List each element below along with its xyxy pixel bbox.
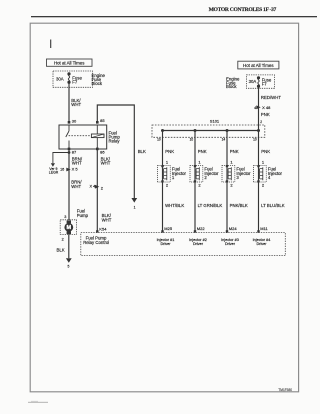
label box: Hot at All Times (right)	[238, 61, 279, 69]
junction below 87	[68, 151, 71, 154]
svg-text:10: 10	[157, 137, 161, 141]
svg-text:WHT: WHT	[101, 161, 111, 166]
svg-text:Driver: Driver	[193, 242, 204, 246]
svg-text:5: 5	[67, 264, 69, 268]
wire: relay 86 to ECM K54, BLK/WHT	[96, 149, 98, 232]
svg-text:87: 87	[72, 149, 77, 154]
svg-text:16: 16	[60, 168, 64, 172]
svg-text:S101: S101	[210, 118, 220, 123]
splice junction node (drop 2)	[194, 129, 197, 132]
wire: fuse F7 to relay 30, BLK/WHT	[68, 82, 70, 122]
svg-text:Relay: Relay	[109, 139, 121, 144]
splice junction node (drop 1)	[161, 129, 164, 132]
svg-text:Hot at All Times: Hot at All Times	[243, 63, 274, 68]
svg-text:30A: 30A	[249, 79, 257, 84]
splice junction node (drop 3)	[226, 129, 229, 132]
bottom-left printing artifact	[28, 402, 48, 403]
fuel injector 2 coil symbol	[194, 165, 196, 183]
svg-text:PNK/BLK: PNK/BLK	[230, 203, 248, 208]
svg-text:X 5: X 5	[72, 167, 79, 172]
svg-text:3: 3	[64, 215, 66, 219]
svg-text:WHT: WHT	[71, 184, 81, 189]
wire: fuel pump to ground, BLK	[68, 234, 70, 258]
wire: relay 85 up and over to ground, BLK	[97, 105, 134, 198]
relay terminal 87	[68, 148, 71, 151]
header rule	[31, 16, 317, 17]
svg-text:M25: M25	[164, 226, 173, 231]
svg-text:1: 1	[134, 206, 136, 210]
svg-text:MOTOR CONTROLES 1F -37: MOTOR CONTROLES 1F -37	[209, 7, 277, 13]
relay terminal 85	[96, 121, 99, 124]
svg-text:TM1F380: TM1F380	[278, 388, 292, 392]
svg-text:M22: M22	[197, 226, 206, 231]
splice bus wire	[163, 130, 259, 132]
svg-text:30: 30	[72, 119, 77, 124]
ground (relay coil)	[131, 198, 137, 203]
fuse F7 dashed box (engine fuse block, left)	[53, 71, 93, 87]
svg-text:WHT: WHT	[71, 102, 81, 107]
svg-text:LT GRN/BLK: LT GRN/BLK	[198, 203, 223, 208]
fuel injector 3 dashed box	[222, 166, 235, 183]
svg-text:2: 2	[260, 120, 262, 124]
wire: right fuse down to splice S101, RED/WHT then PNK	[258, 86, 260, 130]
svg-text:M: M	[66, 225, 71, 231]
wire: splice to injector 4, PNK	[258, 131, 260, 232]
svg-text:86: 86	[100, 149, 105, 154]
svg-text:F7: F7	[72, 79, 78, 84]
svg-text:30A: 30A	[56, 76, 64, 81]
svg-text:M24: M24	[229, 226, 238, 231]
ground (fuel pump)	[66, 258, 72, 263]
splice junction node (drop 4)	[257, 129, 260, 132]
wire: relay 87 down to fuel pump, BRN/WHT	[68, 149, 70, 220]
stray tick mark	[50, 40, 51, 49]
ECM box	[81, 233, 285, 256]
svg-text:2: 2	[62, 238, 64, 242]
fuse F7 symbol	[68, 73, 70, 83]
fuse symbol (right)	[257, 77, 259, 88]
svg-text:85: 85	[100, 118, 105, 123]
wire branch to EGR page	[53, 153, 69, 164]
fuel pump motor symbol	[64, 220, 73, 234]
svg-text:10: 10	[190, 137, 194, 141]
off-page arrow	[51, 163, 55, 166]
svg-text:X 4: X 4	[89, 184, 95, 188]
svg-text:Relay Control: Relay Control	[83, 240, 109, 245]
svg-text:Driver: Driver	[225, 242, 236, 246]
svg-text:Driver: Driver	[256, 242, 267, 246]
relay terminal 30	[68, 121, 71, 124]
fuel injector 4 coil symbol	[257, 165, 259, 183]
relay K? Fuel Pump Relay box	[59, 125, 107, 149]
fuel pump dashed box	[60, 220, 76, 235]
svg-text:WHT: WHT	[102, 218, 112, 223]
svg-text:BLK: BLK	[138, 149, 146, 154]
relay terminal 86	[96, 148, 99, 151]
svg-text:F7: F7	[262, 82, 268, 87]
svg-text:Pump: Pump	[77, 213, 89, 218]
svg-text:WHT/BLK: WHT/BLK	[165, 203, 184, 208]
svg-text:PNK: PNK	[165, 149, 174, 154]
svg-text:LT BLU/BLK: LT BLU/BLK	[261, 203, 285, 208]
svg-text:RED/WHT: RED/WHT	[261, 95, 281, 100]
svg-text:Driver: Driver	[160, 242, 171, 246]
fuel injector 1 dashed box	[158, 166, 171, 183]
fuel injector 1 coil symbol	[161, 165, 163, 183]
svg-text:LEGR: LEGR	[49, 171, 59, 175]
svg-text:PNK: PNK	[261, 149, 270, 154]
svg-text:Hot at All Times: Hot at All Times	[54, 61, 85, 66]
svg-text:WHT: WHT	[72, 161, 82, 166]
wire: splice to injector 3, PNK	[226, 131, 228, 232]
fuel injector 3 coil symbol	[226, 165, 228, 183]
fuse F7 dashed box (engine fuse block, right)	[246, 75, 274, 88]
svg-text:PNK: PNK	[198, 149, 207, 154]
svg-text:K54: K54	[99, 226, 107, 231]
svg-text:4: 4	[254, 106, 256, 110]
svg-text:14: 14	[222, 137, 226, 141]
diagram frame	[30, 23, 298, 392]
svg-text:PNK: PNK	[230, 149, 239, 154]
relay coil	[91, 134, 104, 138]
svg-text:X 48: X 48	[262, 105, 271, 110]
fuel injector 2 dashed box	[190, 166, 203, 183]
svg-text:Block: Block	[92, 81, 103, 86]
label box: Hot at All Times (left)	[47, 59, 93, 66]
wire: splice to injector 1, PNK	[162, 131, 164, 232]
svg-text:M11: M11	[260, 226, 268, 231]
svg-text:Block: Block	[226, 84, 237, 89]
splice S101 dashed enclosure	[152, 125, 265, 137]
wire: splice to injector 2, PNK	[194, 131, 196, 232]
svg-text:BLK: BLK	[56, 247, 64, 252]
svg-text:PNK: PNK	[261, 112, 270, 117]
relay coil leads	[96, 125, 98, 149]
fuel injector 4 dashed box	[254, 166, 267, 183]
relay switch contact	[66, 125, 69, 149]
svg-text:10: 10	[253, 137, 257, 141]
relay actuating link (dashed)	[69, 135, 92, 137]
